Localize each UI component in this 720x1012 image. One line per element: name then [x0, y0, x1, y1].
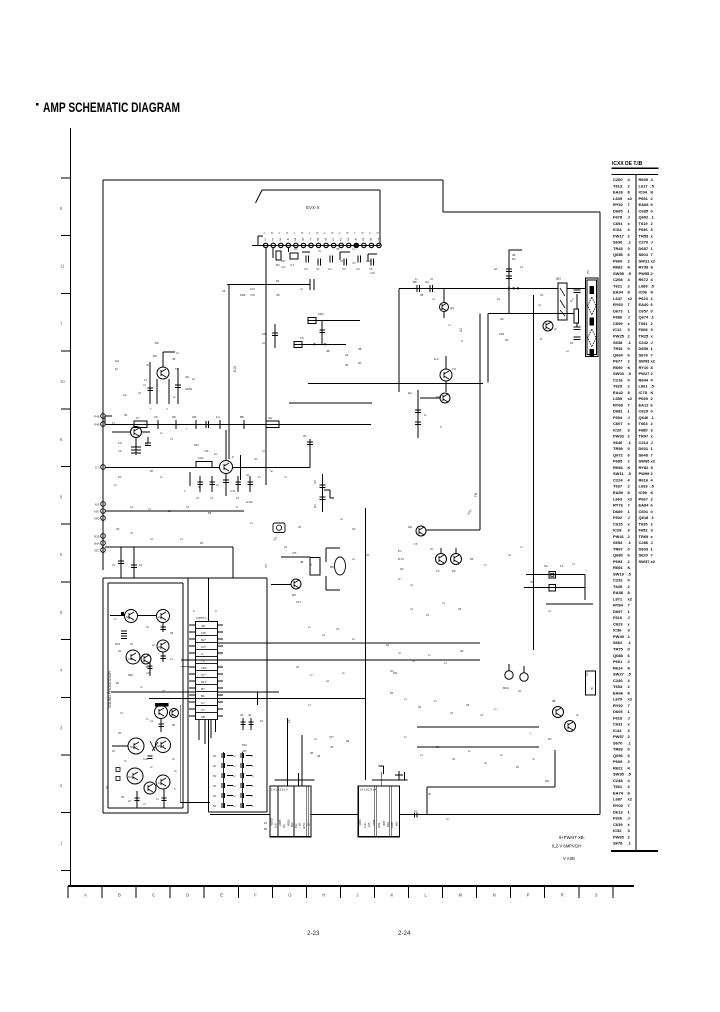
svg-text:A: A	[84, 893, 87, 898]
svg-text:a8: a8	[494, 267, 497, 271]
cap C8 cluster left	[262, 324, 278, 348]
svg-text:H: H	[322, 893, 325, 898]
vertical wire x180	[180, 705, 210, 803]
svg-text:R614: R614	[613, 665, 623, 670]
cap C48 row	[124, 756, 153, 763]
svg-text:R690: R690	[613, 365, 623, 370]
svg-text:x2: x2	[628, 697, 633, 702]
svg-text:c8: c8	[130, 531, 133, 535]
svg-text:Q646: Q646	[639, 415, 650, 420]
caps C651 C652	[393, 664, 528, 693]
svg-text:L655: L655	[613, 396, 623, 401]
svg-text:F610: F610	[613, 615, 623, 620]
svg-text:x8: x8	[484, 761, 487, 765]
cap drops x121 x134	[112, 547, 143, 578]
svg-text:C208: C208	[613, 277, 623, 282]
svg-text:P651: P651	[639, 196, 649, 201]
svg-text:SOUND PROCESSOR: SOUND PROCESSOR	[108, 671, 112, 708]
wire y698	[149, 697, 366, 699]
bracket left of pin1	[258, 236, 263, 245]
svg-text:1B4: 1B4	[240, 293, 246, 297]
svg-text:RY00: RY00	[613, 803, 624, 808]
svg-text:5R: 5R	[213, 794, 216, 798]
svg-text:RY38: RY38	[639, 265, 650, 270]
wire x266 tail	[233, 455, 241, 493]
IC U601 pins	[262, 231, 381, 247]
svg-text:22: 22	[345, 353, 349, 357]
svg-text:TR43: TR43	[613, 246, 624, 251]
svg-text:4.7: 4.7	[290, 263, 295, 267]
wire x399 vertical	[398, 288, 400, 392]
svg-text:FC: FC	[436, 569, 440, 573]
svg-text:C240: C240	[613, 678, 623, 683]
svg-text:SW19: SW19	[613, 571, 625, 576]
svg-text:1c: 1c	[214, 452, 218, 456]
svg-text:C629: C629	[639, 409, 649, 414]
svg-text:4: 4	[287, 238, 289, 242]
svg-text:5R: 5R	[213, 804, 216, 808]
svg-text:R3: R3	[294, 247, 298, 251]
svg-text:D689: D689	[613, 509, 623, 514]
svg-text:TR67: TR67	[613, 546, 624, 551]
wire y313	[488, 312, 574, 314]
svg-text:EA26: EA26	[613, 190, 624, 195]
optocoupler block U605	[281, 548, 346, 590]
opamp A3 pair	[126, 650, 151, 664]
svg-text:x1: x1	[352, 247, 355, 251]
svg-text:J: J	[628, 415, 630, 420]
svg-text:1B7: 1B7	[281, 259, 286, 263]
svg-text:S654: S654	[613, 540, 623, 545]
svg-text:J: J	[628, 215, 630, 220]
svg-text:PW17: PW17	[613, 233, 625, 238]
parts table right column	[639, 177, 656, 564]
wire x310 stub	[303, 434, 313, 468]
svg-text:WY: WY	[556, 277, 562, 281]
transistor pair Q612 Q613	[398, 547, 462, 573]
svg-text:2R: 2R	[505, 338, 509, 342]
svg-text:x2: x2	[300, 287, 303, 291]
svg-text:x2: x2	[284, 475, 287, 479]
svg-text:K: K	[628, 265, 631, 270]
svg-text:Q696: Q696	[613, 753, 624, 758]
svg-text:2B: 2B	[460, 649, 463, 653]
svg-text:38: 38	[310, 751, 314, 755]
svg-text:44: 44	[480, 713, 483, 717]
svg-text:F680: F680	[639, 427, 649, 432]
svg-text:L663: L663	[613, 496, 623, 501]
svg-text:c9: c9	[130, 642, 133, 646]
svg-text:Q680: Q680	[613, 553, 624, 558]
svg-text:12T: 12T	[296, 600, 301, 604]
svg-text:C200: C200	[613, 177, 623, 182]
svg-text:K: K	[628, 765, 631, 770]
svg-text:x02: x02	[281, 265, 286, 269]
svg-text:C35: C35	[128, 657, 133, 661]
svg-text:J85: J85	[292, 551, 297, 555]
capacitor C641 pair	[572, 290, 581, 340]
svg-text:P623: P623	[639, 296, 649, 301]
wire y643 long	[218, 642, 481, 644]
svg-text:1.4.1.8.2.5.1.4: 1.4.1.8.2.5.1.4	[360, 788, 377, 792]
svg-text:A5D: A5D	[94, 517, 99, 521]
svg-text:U7*: U7*	[201, 673, 207, 677]
svg-text:x2: x2	[628, 496, 633, 501]
parts table header	[612, 161, 659, 175]
svg-text:48: 48	[296, 665, 299, 669]
svg-text:E: E	[220, 893, 223, 898]
svg-text:S646: S646	[613, 440, 623, 445]
schematic boundary outline	[103, 180, 600, 815]
svg-text:C5: C5	[264, 564, 268, 568]
transistor Q641	[540, 321, 557, 341]
svg-text:9+PWAIT XB-: 9+PWAIT XB-	[559, 835, 586, 840]
svg-text:4c51: 4c51	[302, 822, 306, 829]
title AMP SCHEMATIC DIAGRAM	[36, 99, 180, 115]
svg-text:2-23: 2-23	[307, 930, 320, 937]
svg-text:G: G	[288, 893, 291, 898]
left border ruler	[60, 128, 71, 886]
svg-text:PJ: PJ	[398, 549, 402, 553]
wire y747 long	[417, 746, 539, 748]
svg-text:Q602: Q602	[639, 215, 650, 220]
svg-text:K: K	[651, 490, 654, 495]
svg-text:x2: x2	[651, 559, 656, 564]
wire y382 mid	[308, 382, 483, 384]
svg-text:B3: B3	[276, 279, 280, 283]
misc reference labels	[112, 247, 574, 769]
svg-text:45: 45	[172, 357, 176, 361]
IC volume control U602	[189, 609, 223, 720]
svg-text:Q656: Q656	[613, 252, 624, 257]
transistor Q615	[264, 564, 301, 604]
svg-text:38: 38	[358, 347, 362, 351]
svg-text:14: 14	[260, 719, 264, 723]
svg-text:C639: C639	[613, 822, 623, 827]
svg-text:x0: x0	[532, 757, 535, 761]
svg-text:SW37: SW37	[639, 559, 651, 564]
svg-text:RY68: RY68	[613, 402, 624, 407]
wire pin stubs down	[273, 248, 288, 259]
svg-text:PW25: PW25	[613, 334, 625, 339]
svg-text:ICXX DE T.IB: ICXX DE T.IB	[612, 161, 643, 167]
svg-text:C214: C214	[639, 440, 649, 445]
wire x233 down	[232, 547, 234, 578]
svg-text:8: 8	[317, 238, 319, 242]
svg-text:4: 4	[355, 238, 357, 242]
wire x509 down	[506, 262, 519, 313]
svg-text:S6: S6	[276, 293, 280, 297]
svg-text:D659: D659	[639, 346, 649, 351]
label FB rotated	[466, 493, 478, 516]
svg-text:LA: LA	[123, 393, 127, 397]
cap pair row1	[115, 631, 133, 646]
svg-text:x2: x2	[628, 596, 633, 601]
block R650	[585, 671, 596, 695]
svg-text:K: K	[651, 190, 654, 195]
transistor Q603 cluster	[144, 352, 193, 411]
svg-text:EA84: EA84	[639, 503, 650, 508]
svg-text:T691: T691	[639, 321, 649, 326]
svg-text:R2: R2	[585, 672, 589, 676]
svg-text:48: 48	[452, 757, 455, 761]
svg-text:L633: L633	[639, 484, 649, 489]
svg-text:AB: AB	[201, 715, 205, 719]
svg-text:a0: a0	[192, 377, 195, 381]
transistor Q605 mid	[434, 356, 456, 399]
svg-text:N5: N5	[172, 415, 176, 419]
svg-text:E1: E1	[264, 821, 268, 825]
svg-text:28: 28	[418, 705, 421, 709]
svg-text:D665: D665	[613, 208, 623, 213]
svg-text:x7: x7	[308, 703, 311, 707]
svg-text:P6: P6	[586, 270, 590, 274]
svg-text:IC28: IC28	[613, 528, 622, 533]
svg-text:B?: B?	[201, 687, 205, 691]
wire x479 and jack	[426, 313, 480, 530]
svg-text:TR83: TR83	[613, 747, 624, 752]
svg-text:x9: x9	[410, 583, 413, 587]
svg-text:01: 01	[139, 563, 143, 567]
svg-text:218: 218	[499, 332, 504, 336]
transistor Q621	[440, 288, 455, 318]
svg-text:C4: C4	[356, 267, 360, 271]
svg-text:22: 22	[340, 259, 343, 263]
sound block inner box	[108, 583, 183, 808]
opamp A2	[138, 610, 170, 633]
svg-text:T619: T619	[639, 221, 649, 226]
svg-text:RY60: RY60	[613, 302, 624, 307]
svg-text:IC78: IC78	[639, 390, 648, 395]
svg-text:L679: L679	[613, 697, 623, 702]
svg-text:2R: 2R	[118, 732, 121, 735]
svg-text:D673: D673	[613, 308, 623, 313]
svg-text:t2: t2	[554, 327, 557, 331]
svg-text:10: 10	[236, 496, 240, 500]
svg-text:x2: x2	[314, 737, 317, 741]
svg-text:B4: B4	[390, 691, 394, 695]
svg-text:R4B: R4B	[94, 423, 100, 427]
bracket RY drive	[509, 250, 522, 262]
svg-text:M4: M4	[393, 671, 397, 675]
svg-text:J: J	[628, 715, 630, 720]
svg-text:T653: T653	[613, 684, 623, 689]
wire x287 down	[287, 718, 291, 786]
capacitor C617 chain	[313, 474, 334, 512]
svg-text:1Ω2: 1Ω2	[198, 456, 204, 460]
svg-text:IC50: IC50	[639, 490, 648, 495]
wire y403	[289, 402, 372, 404]
svg-text:B1Ω: B1Ω	[503, 686, 510, 690]
svg-text:L647: L647	[613, 296, 623, 301]
svg-text:C242: C242	[639, 340, 649, 345]
svg-text:F: F	[254, 893, 257, 898]
svg-text:1R: 1R	[548, 737, 552, 741]
svg-text:88: 88	[150, 469, 153, 473]
svg-text:x2: x2	[628, 296, 633, 301]
svg-text:98: 98	[552, 699, 556, 703]
svg-text:P667: P667	[639, 496, 649, 501]
cluster B35	[128, 662, 153, 677]
svg-text:SW03: SW03	[613, 371, 625, 376]
svg-text:3c: 3c	[428, 792, 432, 796]
svg-text:5R: 5R	[213, 764, 216, 768]
svg-text:A5G: A5G	[94, 510, 100, 514]
svg-text:S6: S6	[313, 480, 317, 484]
svg-text:38: 38	[300, 560, 304, 564]
capacitor C625 on wire	[413, 280, 433, 292]
resistor R611 R612 below pins	[276, 251, 298, 267]
svg-text:31?: 31?	[329, 735, 334, 739]
svg-text:K: K	[651, 390, 654, 395]
polarized cap CX box	[273, 523, 285, 542]
svg-text:2: 2	[272, 238, 274, 242]
svg-text:J: J	[628, 515, 630, 520]
label A2 rotated	[459, 328, 463, 332]
svg-text:RY10: RY10	[639, 365, 650, 370]
svg-text:M: M	[309, 563, 313, 566]
svg-text:28: 28	[246, 473, 249, 477]
svg-text:EA66: EA66	[613, 690, 624, 695]
svg-text:38: 38	[240, 713, 244, 717]
svg-text:c1: c1	[448, 323, 451, 327]
svg-text:10: 10	[60, 379, 65, 384]
svg-text:c2: c2	[262, 449, 265, 453]
svg-text:x2: x2	[628, 396, 633, 401]
svg-text:R698: R698	[613, 465, 623, 470]
svg-text:F686: F686	[613, 315, 623, 320]
svg-text:SW93: SW93	[639, 359, 651, 364]
svg-text:F652: F652	[639, 528, 649, 533]
svg-text:22: 22	[168, 509, 171, 513]
svg-text:S604: S604	[639, 252, 649, 257]
svg-text:B6A: B6A	[94, 542, 99, 546]
svg-text:L2R: L2R	[201, 666, 207, 670]
svg-text:F7: F7	[136, 416, 140, 420]
svg-text:7Ω2: 7Ω2	[250, 293, 256, 297]
svg-text:C5: C5	[352, 261, 356, 265]
svg-text:x8: x8	[336, 627, 339, 631]
svg-text:c4: c4	[210, 496, 213, 500]
svg-text:B8: B8	[346, 739, 350, 743]
svg-text:F626: F626	[613, 816, 623, 821]
svg-text:J: J	[651, 240, 653, 245]
svg-text:x4B5: x4B5	[372, 819, 376, 826]
svg-text:x5: x5	[170, 437, 173, 441]
svg-text:1: 1	[264, 238, 266, 242]
wire y424 long	[105, 416, 371, 425]
svg-text:TR25: TR25	[639, 334, 650, 339]
page number 2-23	[307, 930, 320, 937]
svg-text:F5: F5	[414, 542, 418, 546]
svg-text:F608: F608	[639, 327, 649, 332]
svg-text:F618: F618	[613, 715, 623, 720]
svg-text:B.15: B.15	[398, 557, 404, 561]
svg-text:1c9: 1c9	[274, 823, 278, 828]
svg-text:IC04: IC04	[613, 227, 622, 232]
svg-text:TDI: TDI	[201, 631, 206, 635]
opamp B2 row	[105, 768, 170, 809]
svg-text:B6: B6	[313, 504, 317, 508]
svg-text:S648: S648	[639, 452, 649, 457]
IC2 bottom stubs	[199, 720, 216, 745]
svg-text:23Ω: 23Ω	[318, 312, 324, 316]
svg-text:C3: C3	[342, 267, 346, 271]
svg-text:5: 5	[294, 238, 296, 242]
resistor pair 38 48	[240, 713, 254, 753]
svg-text:C8: C8	[262, 332, 266, 336]
svg-text:B8: B8	[240, 415, 244, 419]
svg-text:1c: 1c	[497, 297, 501, 301]
svg-text:x9: x9	[538, 303, 541, 307]
module A top bus	[275, 735, 321, 786]
capacitor cluster under Q602	[184, 472, 253, 504]
svg-text:A1: A1	[130, 505, 134, 509]
svg-text:6: 6	[302, 238, 304, 242]
wire y660 long	[181, 659, 480, 661]
wire y667 stub	[181, 666, 196, 668]
svg-text:1T: 1T	[560, 564, 564, 568]
svg-text:2: 2	[340, 238, 342, 242]
svg-text:TR59: TR59	[613, 446, 624, 451]
svg-text:AE3: AE3	[94, 549, 100, 553]
svg-text:x2: x2	[651, 459, 656, 464]
sound block outer box	[103, 578, 267, 813]
svg-text:R672: R672	[639, 277, 649, 282]
svg-text:1: 1	[332, 238, 334, 242]
svg-text:2B: 2B	[170, 632, 173, 635]
svg-text:58Ω: 58Ω	[128, 673, 133, 677]
fuse F601 wire	[526, 562, 585, 578]
svg-text:C685: C685	[639, 208, 649, 213]
svg-text:J: J	[628, 816, 630, 821]
svg-text:F678: F678	[613, 215, 623, 220]
svg-text:P669: P669	[613, 258, 623, 263]
svg-text:RY76: RY76	[613, 503, 624, 508]
svg-text:a/10u: a/10u	[246, 500, 253, 504]
svg-text:x2: x2	[651, 258, 656, 263]
svg-text:RY52: RY52	[613, 202, 624, 207]
svg-text:R8: R8	[512, 257, 516, 261]
svg-text:c7: c7	[572, 562, 575, 566]
wire x229 down to Q602	[228, 285, 230, 459]
svg-text:x48: x48	[204, 449, 209, 453]
opamp A1	[110, 610, 138, 623]
svg-text:27: 27	[112, 563, 116, 567]
labels under B rows	[112, 618, 177, 803]
svg-text:x0: x0	[398, 651, 401, 655]
svg-text:B8: B8	[420, 293, 424, 297]
svg-text:c2: c2	[410, 607, 413, 611]
svg-text:10: 10	[150, 537, 153, 541]
power amp module IC601	[270, 786, 312, 837]
svg-text:IC52: IC52	[613, 828, 622, 833]
relay RY601	[545, 277, 585, 320]
dark cap Q transistor pair	[150, 703, 179, 732]
svg-text:SW35: SW35	[613, 772, 625, 777]
svg-text:x4: x4	[150, 719, 153, 723]
svg-text:TR75: TR75	[613, 647, 624, 652]
svg-text:C2: C2	[425, 280, 429, 284]
svg-text:S8: S8	[222, 289, 226, 293]
capacitor C603	[145, 437, 151, 446]
svg-text:ZI: ZI	[430, 547, 433, 551]
svg-text:R9: R9	[155, 341, 159, 345]
svg-text:Q618: Q618	[639, 515, 650, 520]
svg-text:TR97: TR97	[639, 434, 650, 439]
svg-text:x4: x4	[442, 601, 445, 605]
svg-text:58: 58	[358, 361, 362, 365]
